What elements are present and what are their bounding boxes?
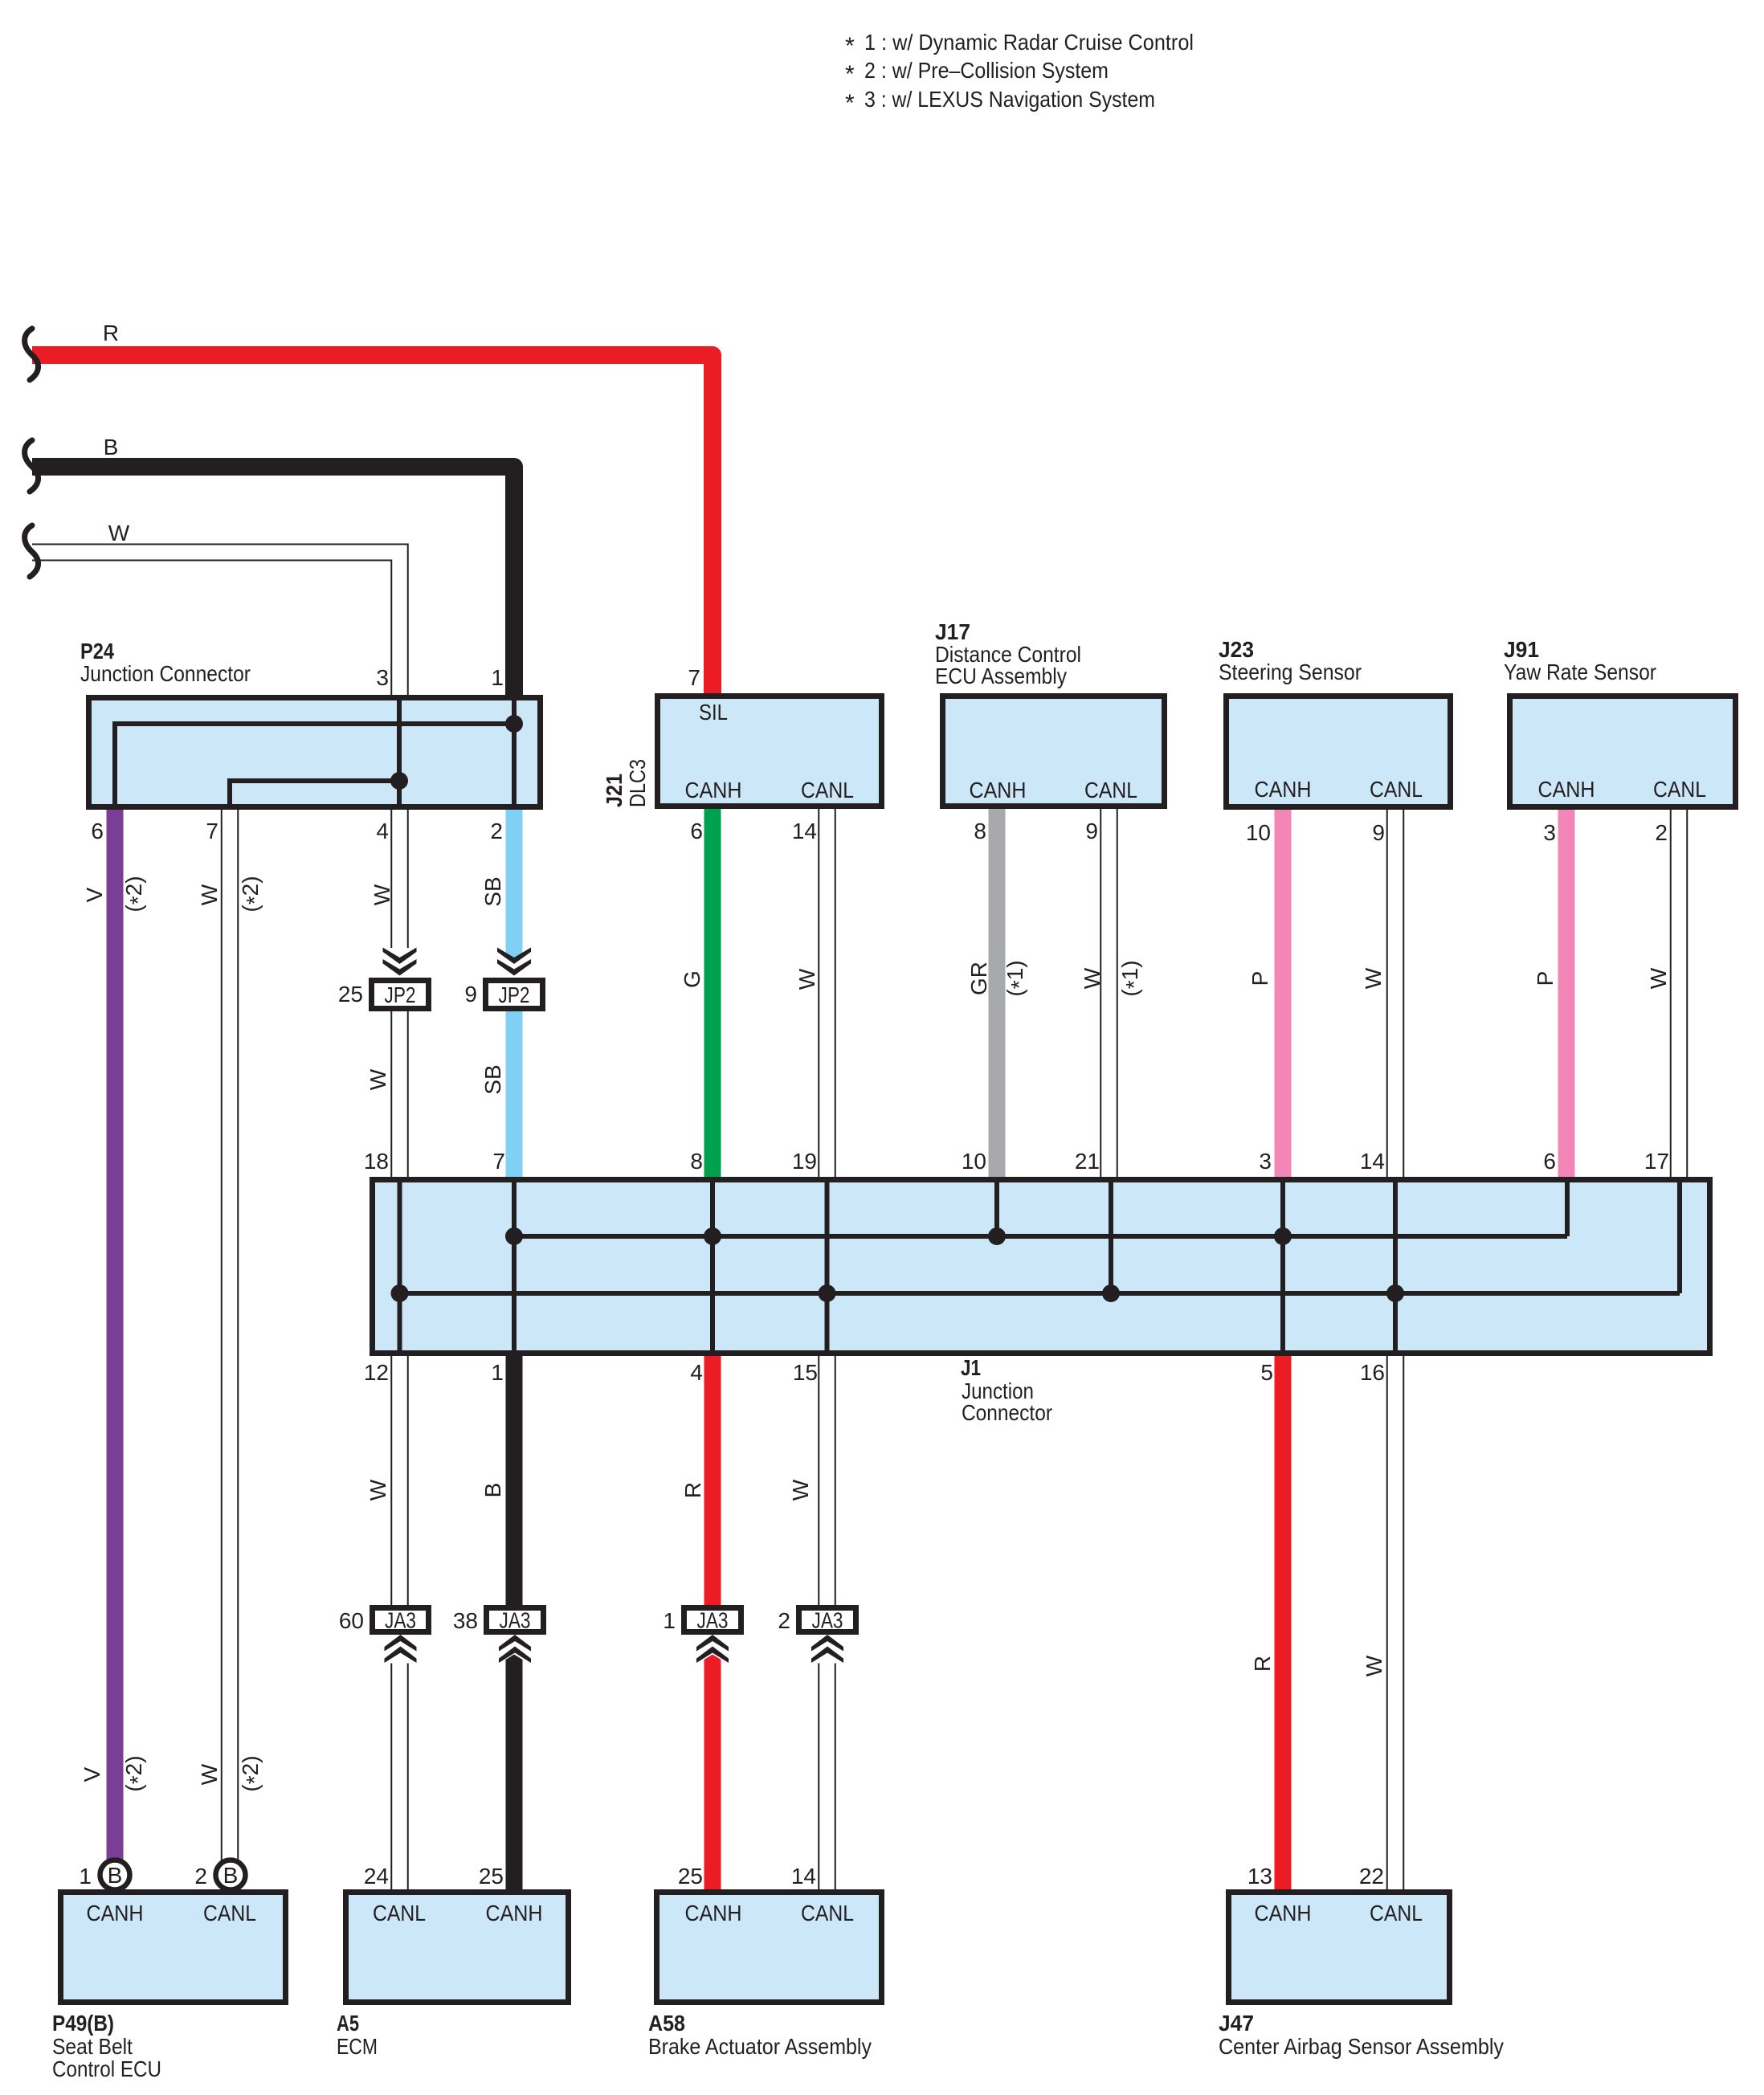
svg-text:2: 2 — [778, 1608, 790, 1633]
svg-text:V: V — [82, 887, 107, 902]
svg-text:V: V — [80, 1766, 104, 1782]
svg-text:GR: GR — [966, 962, 991, 995]
svg-text:B: B — [223, 1863, 239, 1888]
svg-text:(*2): (*2) — [121, 876, 150, 912]
svg-text:2: 2 — [1655, 820, 1668, 845]
svg-text:17: 17 — [1644, 1149, 1669, 1174]
svg-text:B: B — [108, 1863, 123, 1888]
svg-text:W: W — [365, 1479, 390, 1501]
svg-text:R: R — [103, 321, 119, 345]
svg-text:A58: A58 — [648, 2011, 685, 2036]
svg-text:(*1): (*1) — [1117, 960, 1146, 996]
svg-text:(*2): (*2) — [121, 1755, 150, 1791]
svg-text:W: W — [197, 884, 222, 905]
svg-text:1: 1 — [491, 665, 504, 690]
svg-text:SB: SB — [480, 1064, 505, 1094]
svg-text:W: W — [788, 1479, 813, 1501]
svg-text:3: 3 — [376, 665, 389, 690]
svg-text:Steering Sensor: Steering Sensor — [1219, 660, 1362, 684]
svg-text:CANL: CANL — [1370, 1901, 1423, 1926]
svg-text:Center Airbag Sensor Assembly: Center Airbag Sensor Assembly — [1219, 2034, 1504, 2059]
svg-text:24: 24 — [364, 1864, 389, 1889]
svg-text:10: 10 — [1246, 820, 1271, 845]
svg-text:25: 25 — [678, 1864, 703, 1889]
svg-text:9: 9 — [1372, 820, 1385, 845]
svg-text:G: G — [680, 970, 704, 988]
svg-text:W: W — [1361, 967, 1386, 989]
svg-text:7: 7 — [492, 1149, 505, 1174]
svg-text:38: 38 — [453, 1608, 478, 1633]
svg-text:J91: J91 — [1504, 637, 1539, 662]
svg-text:J1: J1 — [961, 1355, 981, 1380]
svg-text:Yaw Rate Sensor: Yaw Rate Sensor — [1504, 660, 1656, 684]
svg-text:P49(B): P49(B) — [52, 2011, 114, 2036]
svg-text:CANH: CANH — [1538, 777, 1595, 802]
svg-text:Connector: Connector — [962, 1400, 1052, 1425]
svg-text:14: 14 — [791, 1864, 816, 1889]
svg-text:CANL: CANL — [801, 1901, 854, 1926]
svg-text:14: 14 — [1360, 1149, 1385, 1174]
svg-text:3: 3 — [1543, 820, 1556, 845]
svg-text:W: W — [108, 521, 130, 545]
svg-text:CANH: CANH — [486, 1901, 543, 1926]
svg-text:22: 22 — [1359, 1864, 1384, 1889]
svg-text:1 : w/ Dynamic Radar Cruise Co: 1 : w/ Dynamic Radar Cruise Control — [864, 30, 1194, 55]
svg-text:W: W — [1646, 967, 1671, 989]
svg-text:(*2): (*2) — [238, 1755, 267, 1791]
svg-text:1: 1 — [491, 1360, 504, 1385]
svg-text:6: 6 — [690, 819, 703, 843]
svg-text:CANL: CANL — [1084, 778, 1137, 802]
svg-text:J21: J21 — [602, 774, 627, 807]
svg-text:3 : w/ LEXUS Navigation System: 3 : w/ LEXUS Navigation System — [864, 87, 1155, 112]
svg-text:1: 1 — [663, 1608, 676, 1633]
svg-text:*: * — [845, 33, 855, 59]
svg-text:8: 8 — [974, 819, 986, 843]
svg-text:16: 16 — [1360, 1360, 1385, 1385]
svg-text:P: P — [1533, 971, 1558, 986]
svg-text:W: W — [197, 1763, 222, 1785]
svg-text:4: 4 — [376, 819, 389, 843]
svg-text:9: 9 — [1085, 819, 1098, 843]
svg-text:CANH: CANH — [685, 778, 742, 802]
svg-text:8: 8 — [690, 1149, 703, 1174]
svg-text:(*1): (*1) — [1002, 960, 1031, 996]
svg-text:JA3: JA3 — [812, 1608, 843, 1633]
svg-text:21: 21 — [1075, 1149, 1100, 1174]
svg-text:ECU Assembly: ECU Assembly — [935, 664, 1067, 688]
svg-text:15: 15 — [793, 1360, 818, 1385]
svg-text:CANL: CANL — [1653, 777, 1706, 802]
svg-text:12: 12 — [364, 1360, 389, 1385]
svg-text:Junction Connector: Junction Connector — [80, 661, 251, 686]
svg-text:JA3: JA3 — [697, 1608, 729, 1633]
svg-text:Seat Belt: Seat Belt — [52, 2034, 133, 2059]
svg-text:J17: J17 — [935, 619, 970, 644]
svg-text:J47: J47 — [1219, 2011, 1254, 2036]
svg-text:B: B — [104, 435, 119, 459]
svg-text:5: 5 — [1260, 1360, 1273, 1385]
svg-text:P: P — [1247, 971, 1272, 986]
svg-text:14: 14 — [792, 819, 817, 843]
svg-text:25: 25 — [338, 982, 363, 1007]
svg-text:2: 2 — [194, 1864, 207, 1889]
svg-text:W: W — [1362, 1655, 1386, 1676]
svg-text:19: 19 — [792, 1149, 817, 1174]
svg-text:CANH: CANH — [1255, 1901, 1312, 1926]
svg-text:(*2): (*2) — [238, 876, 267, 912]
svg-text:2: 2 — [490, 819, 503, 843]
svg-text:2 : w/ Pre–Collision System: 2 : w/ Pre–Collision System — [864, 58, 1109, 83]
svg-text:6: 6 — [91, 819, 104, 843]
svg-text:R: R — [680, 1482, 705, 1498]
svg-text:CANL: CANL — [203, 1901, 256, 1926]
svg-text:CANL: CANL — [801, 778, 854, 802]
svg-text:JP2: JP2 — [499, 982, 530, 1007]
svg-text:JA3: JA3 — [385, 1608, 416, 1633]
svg-text:7: 7 — [206, 819, 218, 843]
svg-text:*: * — [845, 90, 855, 116]
svg-text:CANH: CANH — [87, 1901, 144, 1926]
svg-text:W: W — [794, 968, 819, 990]
svg-text:Control ECU: Control ECU — [52, 2056, 161, 2081]
svg-text:ECM: ECM — [337, 2034, 378, 2059]
svg-text:CANL: CANL — [373, 1901, 426, 1926]
svg-text:CANH: CANH — [970, 778, 1027, 802]
svg-text:W: W — [365, 1068, 390, 1090]
svg-text:W: W — [1080, 967, 1105, 989]
svg-text:60: 60 — [339, 1608, 364, 1633]
svg-text:3: 3 — [1259, 1149, 1272, 1174]
svg-text:CANH: CANH — [1255, 777, 1312, 802]
svg-text:9: 9 — [464, 982, 477, 1007]
svg-text:18: 18 — [364, 1149, 389, 1174]
svg-text:10: 10 — [962, 1149, 986, 1174]
svg-text:13: 13 — [1247, 1864, 1272, 1889]
svg-text:JP2: JP2 — [385, 982, 416, 1007]
svg-text:R: R — [1250, 1656, 1275, 1672]
svg-text:Brake Actuator Assembly: Brake Actuator Assembly — [648, 2034, 872, 2059]
svg-text:1: 1 — [79, 1864, 92, 1889]
svg-text:7: 7 — [688, 665, 700, 690]
svg-text:J23: J23 — [1219, 637, 1254, 662]
svg-text:P24: P24 — [80, 639, 114, 664]
svg-text:SB: SB — [480, 876, 505, 906]
svg-text:CANH: CANH — [685, 1901, 742, 1926]
svg-text:JA3: JA3 — [500, 1608, 531, 1633]
svg-text:CANL: CANL — [1370, 777, 1423, 802]
svg-text:B: B — [480, 1483, 505, 1498]
svg-text:W: W — [370, 884, 394, 905]
svg-text:A5: A5 — [337, 2011, 359, 2036]
svg-text:25: 25 — [479, 1864, 504, 1889]
svg-text:SIL: SIL — [699, 700, 728, 725]
svg-text:6: 6 — [1543, 1149, 1556, 1174]
svg-text:*: * — [845, 61, 855, 88]
svg-text:4: 4 — [690, 1360, 703, 1385]
svg-text:DLC3: DLC3 — [625, 759, 650, 807]
